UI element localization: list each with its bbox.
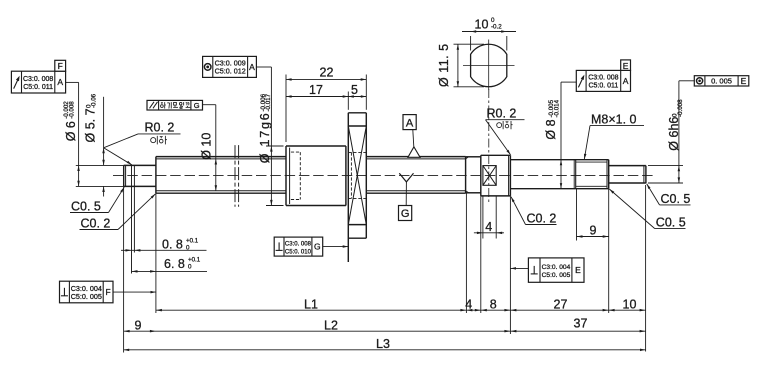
svg-text:Ø 5. 7: Ø 5. 7 (84, 108, 98, 142)
svg-text:-0.06: -0.06 (91, 93, 98, 108)
svg-text:E: E (741, 76, 747, 86)
svg-text:A: A (406, 117, 414, 129)
svg-text:Ø 6h6: Ø 6h6 (667, 117, 681, 151)
svg-text:E: E (575, 265, 581, 275)
svg-text:C5:0. 011: C5:0. 011 (23, 84, 53, 91)
svg-text:C5:0. 005: C5:0. 005 (71, 292, 102, 301)
svg-text:5: 5 (351, 83, 358, 97)
svg-text:A: A (249, 62, 255, 72)
svg-text:C0. 5: C0. 5 (71, 200, 101, 214)
svg-text:L1: L1 (304, 297, 318, 311)
svg-text:A: A (57, 77, 63, 87)
svg-text:10: 10 (623, 297, 637, 311)
svg-text:F: F (105, 287, 110, 297)
svg-text:Ø 6: Ø 6 (64, 121, 78, 141)
svg-text:Ø 11. 5: Ø 11. 5 (437, 43, 451, 87)
svg-text:4: 4 (485, 220, 492, 234)
svg-text:17: 17 (309, 83, 323, 97)
svg-text:C5:0. 011: C5:0. 011 (588, 83, 618, 90)
svg-text:C3:0. 008: C3:0. 008 (23, 76, 53, 83)
svg-text:Ø 17g6: Ø 17g6 (258, 111, 272, 163)
svg-text:Ø 10: Ø 10 (200, 133, 214, 160)
svg-text:G: G (401, 208, 410, 220)
svg-text:L2: L2 (324, 318, 338, 332)
svg-text:A: A (623, 76, 629, 86)
svg-text:0. 8: 0. 8 (162, 238, 183, 252)
svg-text:C5:0. 005: C5:0. 005 (542, 272, 571, 279)
svg-text:C5:0. 012: C5:0. 012 (215, 67, 246, 76)
svg-text:C3:0. 008: C3:0. 008 (588, 75, 618, 82)
svg-text:E: E (623, 61, 629, 71)
svg-text:L3: L3 (376, 337, 390, 351)
svg-text:0. 005: 0. 005 (711, 77, 732, 86)
svg-text:C0. 2: C0. 2 (81, 217, 111, 231)
svg-text:-0.017: -0.017 (265, 93, 272, 111)
svg-text:22: 22 (320, 66, 334, 80)
svg-text:G: G (314, 242, 321, 252)
svg-text:R0. 2: R0. 2 (487, 106, 517, 120)
svg-text:Ø 8: Ø 8 (544, 119, 558, 139)
svg-text:C5:0. 010: C5:0. 010 (285, 249, 312, 255)
svg-text:-0.2: -0.2 (491, 24, 502, 31)
svg-text:8: 8 (490, 297, 497, 311)
svg-text:M8×1. 0: M8×1. 0 (591, 112, 637, 126)
svg-text:C0. 2: C0. 2 (527, 211, 557, 225)
svg-text:G: G (194, 101, 200, 110)
svg-text:C0. 5: C0. 5 (661, 192, 691, 206)
svg-text:37: 37 (574, 317, 588, 331)
svg-text:-0.008: -0.008 (69, 101, 76, 119)
svg-text:9: 9 (135, 318, 142, 332)
svg-text:C3:0. 008: C3:0. 008 (285, 241, 312, 247)
svg-text:R0. 2: R0. 2 (145, 121, 175, 135)
svg-text:10: 10 (475, 17, 489, 31)
svg-text:C0. 5: C0. 5 (656, 216, 686, 230)
svg-text:0: 0 (186, 244, 190, 251)
svg-text:-0.008: -0.008 (677, 99, 684, 117)
svg-text:F: F (58, 61, 63, 71)
svg-text:9: 9 (590, 223, 597, 237)
svg-text:0: 0 (188, 264, 192, 271)
svg-text:27: 27 (554, 297, 568, 311)
svg-text:6. 8: 6. 8 (164, 257, 185, 271)
svg-text:C3:0. 004: C3:0. 004 (542, 264, 571, 271)
svg-text:-0.014: -0.014 (554, 99, 561, 117)
svg-text:4: 4 (465, 297, 472, 311)
